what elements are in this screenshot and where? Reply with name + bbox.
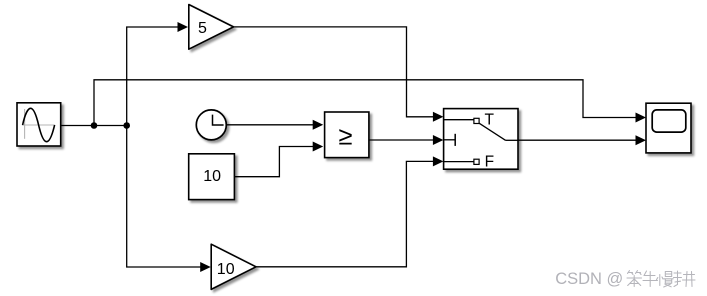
arrowhead into scope input 2 [636, 135, 647, 145]
arrowhead into switch F [433, 156, 444, 166]
gain block 5 [189, 5, 234, 50]
arrowhead into relational input 1 [313, 120, 324, 130]
arrowhead into gain10 [200, 262, 211, 272]
switch T port square [474, 118, 479, 123]
switch lever diagonal [479, 123, 505, 140]
node junction 2 [123, 122, 130, 129]
node junction 1 [91, 122, 98, 129]
switch block [444, 109, 518, 171]
svg-text:≥: ≥ [338, 123, 352, 151]
wire clock output to relational input 1 [227, 124, 314, 126]
wire constant output to relational input 2 [234, 147, 313, 177]
switch F port square [474, 159, 479, 164]
svg-text:10: 10 [203, 168, 221, 185]
wire relational output to switch middle input [369, 139, 434, 141]
svg-text:CSDN @: CSDN @ [555, 270, 623, 288]
arrowhead into switch middle [433, 135, 444, 145]
scope block [646, 103, 691, 153]
arrowhead into switch T [433, 112, 444, 122]
wire gain10 output to switch F input [256, 161, 434, 266]
svg-text:T: T [485, 111, 495, 128]
char ben (bamboo top + wood) [627, 271, 642, 287]
switch output stub [506, 139, 519, 141]
char geng (plough) [674, 271, 696, 287]
watermark CJK characters (hand-drawn) [627, 271, 695, 288]
sine wave source block [17, 103, 61, 146]
char man (slow) [657, 272, 674, 288]
switch F input line [444, 161, 474, 163]
switch middle threshold tick [454, 134, 456, 146]
clock block [196, 110, 226, 140]
gain block 10 [211, 244, 256, 289]
switch middle input line [444, 139, 456, 141]
wire junction2 up to gain5 input [127, 27, 179, 126]
switch T input line [444, 119, 474, 121]
char niu (cow) [643, 271, 658, 287]
wire gain5 output to switch T input [234, 27, 435, 117]
svg-text:10: 10 [217, 261, 235, 278]
svg-text:5: 5 [198, 20, 207, 37]
arrowhead into scope input 1 [636, 113, 647, 123]
wire junction2 down to gain10 input [127, 126, 201, 268]
arrowhead into gain5 [178, 22, 189, 32]
constant block 10 [189, 154, 235, 200]
wire sine output to junctions [61, 125, 127, 127]
relational operator block >= [325, 112, 369, 158]
wire junction1 up and across to scope input 1 [94, 80, 637, 126]
svg-text:F: F [485, 153, 494, 170]
arrowhead into relational input 2 [313, 142, 324, 152]
wire switch output to scope input 2 [518, 139, 637, 141]
